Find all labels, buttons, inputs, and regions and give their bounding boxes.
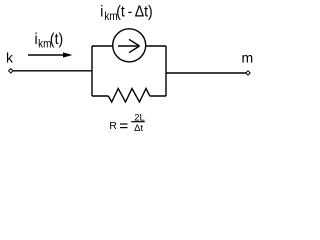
- svg-text:R: R: [109, 120, 117, 132]
- resistor R zigzag: [108, 89, 150, 103]
- svg-text:m: m: [242, 50, 254, 66]
- current arrow i_km(t): [28, 52, 73, 57]
- node m terminal diamond: [246, 71, 250, 75]
- current source arrow: [118, 39, 140, 52]
- fraction bar: [131, 121, 145, 122]
- equals sign: [120, 123, 128, 124]
- svg-text:k: k: [6, 50, 14, 66]
- node k terminal diamond: [9, 69, 13, 73]
- wire from node k to box: [13, 70, 92, 72]
- left vertical bar of parallel box: [91, 46, 93, 96]
- right vertical bar of parallel box: [165, 46, 167, 96]
- bottom branch wire, right stub: [150, 95, 166, 97]
- wire from box to node m: [166, 72, 246, 74]
- current source circle: [113, 29, 146, 62]
- top branch wire, left stub: [92, 45, 113, 47]
- bottom branch wire, left stub: [92, 95, 108, 97]
- svg-text:Δt: Δt: [134, 123, 143, 134]
- top branch wire, right stub: [146, 45, 166, 47]
